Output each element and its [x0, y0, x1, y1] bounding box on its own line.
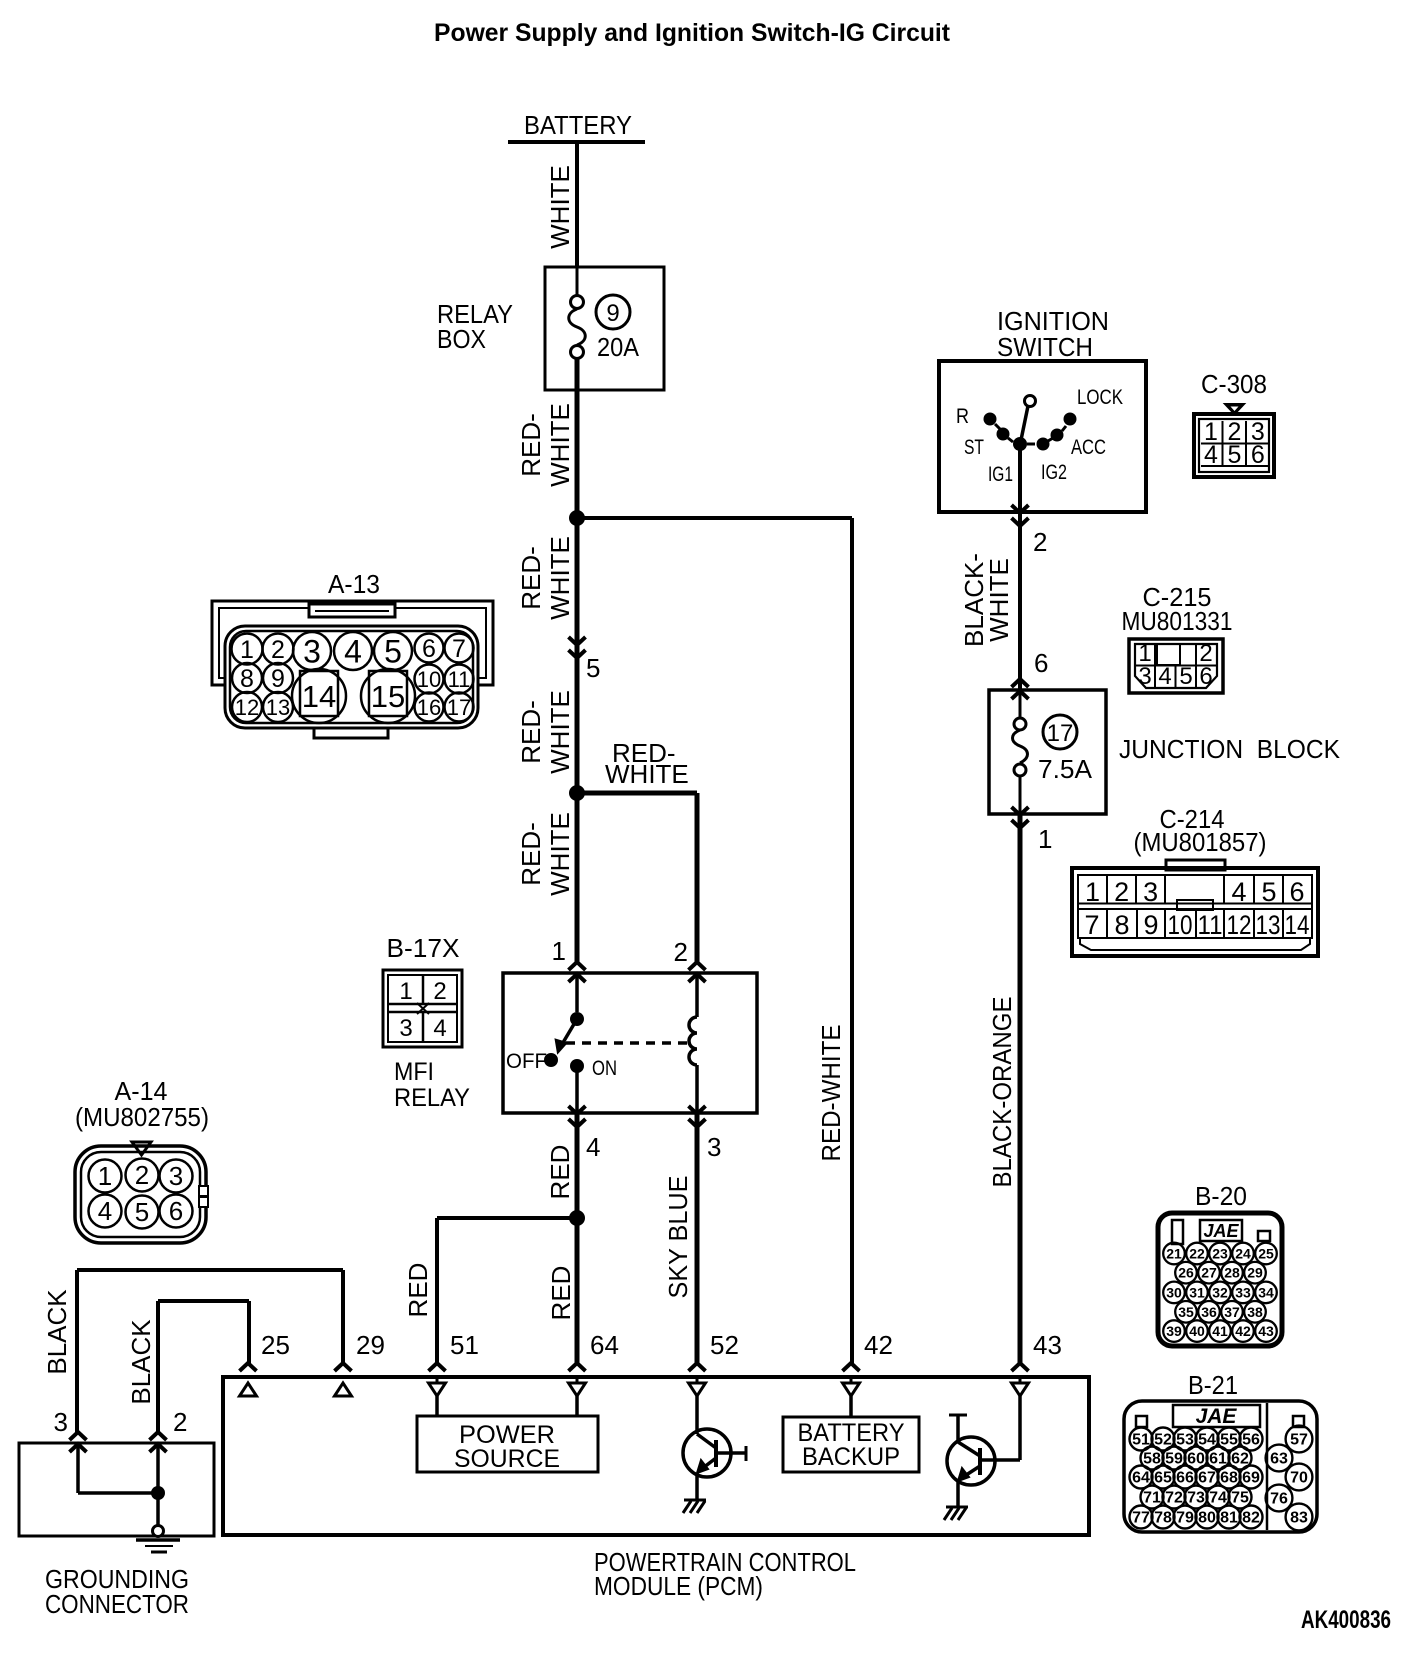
svg-text:41: 41 — [1212, 1323, 1228, 1339]
svg-text:AK400836: AK400836 — [1301, 1606, 1391, 1634]
svg-text:2: 2 — [135, 1160, 149, 1190]
svg-text:2: 2 — [173, 1407, 187, 1437]
svg-text:9: 9 — [271, 665, 285, 693]
svg-text:6: 6 — [1034, 648, 1048, 678]
svg-text:71: 71 — [1143, 1490, 1161, 1507]
svg-text:51: 51 — [450, 1330, 479, 1360]
svg-text:28: 28 — [1224, 1265, 1240, 1281]
svg-text:34: 34 — [1258, 1284, 1274, 1300]
svg-text:ACC: ACC — [1071, 436, 1106, 459]
svg-text:RELAY: RELAY — [394, 1084, 470, 1112]
svg-text:6: 6 — [169, 1196, 183, 1226]
svg-text:79: 79 — [1176, 1510, 1194, 1527]
svg-text:81: 81 — [1220, 1510, 1238, 1527]
svg-text:6: 6 — [1289, 877, 1304, 907]
svg-text:35: 35 — [1178, 1304, 1194, 1320]
svg-text:IG2: IG2 — [1041, 461, 1067, 484]
svg-text:6: 6 — [1199, 663, 1212, 690]
svg-text:80: 80 — [1198, 1510, 1216, 1527]
svg-text:59: 59 — [1165, 1451, 1183, 1468]
svg-text:2: 2 — [433, 978, 446, 1005]
svg-text:64: 64 — [590, 1330, 619, 1360]
svg-text:24: 24 — [1235, 1246, 1251, 1262]
svg-text:2: 2 — [1114, 877, 1129, 907]
svg-text:B-21: B-21 — [1188, 1370, 1238, 1400]
svg-text:3: 3 — [1143, 877, 1158, 907]
svg-text:B-17X: B-17X — [387, 933, 460, 963]
svg-text:68: 68 — [1220, 1470, 1238, 1487]
svg-text:RED-: RED- — [516, 413, 546, 477]
svg-text:MFI: MFI — [394, 1058, 434, 1086]
svg-text:64: 64 — [1132, 1470, 1150, 1487]
svg-text:MU801331: MU801331 — [1122, 606, 1233, 636]
svg-text:11: 11 — [448, 667, 471, 692]
svg-text:33: 33 — [1235, 1284, 1251, 1300]
svg-text:R: R — [956, 405, 969, 428]
svg-text:76: 76 — [1270, 1491, 1288, 1508]
svg-text:26: 26 — [1178, 1265, 1194, 1281]
svg-text:4: 4 — [433, 1015, 446, 1042]
svg-text:WHITE: WHITE — [605, 759, 689, 789]
svg-text:25: 25 — [261, 1330, 290, 1360]
svg-text:58: 58 — [1143, 1451, 1161, 1468]
svg-text:RED: RED — [546, 1266, 576, 1321]
svg-text:8: 8 — [240, 665, 254, 693]
svg-text:1: 1 — [399, 978, 412, 1005]
svg-text:62: 62 — [1231, 1451, 1249, 1468]
svg-text:4: 4 — [1158, 663, 1171, 690]
svg-text:14: 14 — [1285, 910, 1310, 940]
svg-text:5: 5 — [135, 1197, 149, 1227]
svg-text:25: 25 — [1258, 1246, 1274, 1262]
svg-text:60: 60 — [1187, 1451, 1205, 1468]
svg-text:4: 4 — [98, 1196, 112, 1226]
svg-text:SKY BLUE: SKY BLUE — [663, 1176, 693, 1299]
svg-text:5: 5 — [1261, 877, 1276, 907]
svg-text:12: 12 — [235, 695, 259, 720]
svg-text:9: 9 — [1143, 910, 1158, 940]
svg-text:61: 61 — [1209, 1451, 1227, 1468]
svg-text:37: 37 — [1224, 1304, 1240, 1320]
svg-text:15: 15 — [371, 679, 405, 714]
svg-text:RED-: RED- — [516, 700, 546, 764]
svg-text:10: 10 — [1168, 910, 1193, 940]
svg-text:53: 53 — [1176, 1432, 1194, 1449]
svg-text:RED: RED — [403, 1263, 433, 1318]
svg-text:32: 32 — [1212, 1284, 1228, 1300]
svg-text:3: 3 — [169, 1161, 183, 1191]
svg-text:RED-: RED- — [516, 822, 546, 886]
svg-text:52: 52 — [710, 1330, 739, 1360]
svg-text:5: 5 — [1179, 663, 1192, 690]
svg-text:RED-WHITE: RED-WHITE — [816, 1025, 846, 1162]
svg-text:16: 16 — [417, 695, 441, 720]
svg-text:65: 65 — [1154, 1470, 1172, 1487]
svg-text:12: 12 — [1227, 910, 1252, 940]
svg-text:36: 36 — [1201, 1304, 1217, 1320]
svg-text:4: 4 — [344, 633, 362, 669]
svg-text:IG1: IG1 — [988, 463, 1013, 486]
svg-text:C-308: C-308 — [1201, 369, 1267, 399]
svg-text:3: 3 — [303, 633, 321, 669]
svg-text:7: 7 — [1084, 910, 1099, 940]
svg-text:2: 2 — [674, 937, 688, 967]
svg-text:69: 69 — [1242, 1470, 1260, 1487]
svg-text:WHITE: WHITE — [545, 690, 575, 774]
svg-text:(MU802755): (MU802755) — [75, 1102, 209, 1132]
svg-text:7.5A: 7.5A — [1038, 754, 1093, 784]
svg-text:1: 1 — [240, 636, 254, 664]
svg-text:BLACK: BLACK — [42, 1289, 72, 1375]
svg-text:CONNECTOR: CONNECTOR — [45, 1589, 189, 1619]
svg-text:SOURCE: SOURCE — [454, 1445, 560, 1473]
svg-text:73: 73 — [1187, 1490, 1205, 1507]
svg-text:20A: 20A — [597, 332, 640, 362]
svg-text:BATTERY: BATTERY — [524, 110, 632, 140]
svg-text:5: 5 — [384, 633, 402, 669]
svg-text:SWITCH: SWITCH — [997, 332, 1093, 362]
svg-text:39: 39 — [1166, 1323, 1182, 1339]
svg-text:78: 78 — [1154, 1510, 1172, 1527]
svg-text:B-20: B-20 — [1195, 1181, 1247, 1211]
svg-text:74: 74 — [1209, 1490, 1227, 1507]
svg-text:42: 42 — [1235, 1323, 1251, 1339]
svg-text:22: 22 — [1189, 1246, 1205, 1262]
svg-text:A-13: A-13 — [328, 569, 380, 599]
svg-text:ST: ST — [964, 436, 984, 459]
svg-text:BLACK: BLACK — [126, 1319, 156, 1405]
svg-text:WHITE: WHITE — [545, 812, 575, 896]
svg-text:BOX: BOX — [437, 324, 486, 354]
svg-text:40: 40 — [1189, 1323, 1205, 1339]
svg-text:43: 43 — [1033, 1330, 1062, 1360]
svg-text:RED-: RED- — [516, 546, 546, 610]
svg-text:30: 30 — [1166, 1284, 1182, 1300]
svg-text:67: 67 — [1198, 1470, 1216, 1487]
svg-text:5: 5 — [1227, 441, 1241, 469]
svg-text:21: 21 — [1166, 1246, 1182, 1262]
svg-text:2: 2 — [1033, 527, 1047, 557]
svg-text:42: 42 — [864, 1330, 893, 1360]
svg-text:4: 4 — [1231, 877, 1246, 907]
svg-text:70: 70 — [1290, 1470, 1308, 1487]
svg-text:JAE: JAE — [1203, 1221, 1239, 1241]
svg-text:77: 77 — [1132, 1510, 1150, 1527]
svg-text:23: 23 — [1212, 1246, 1228, 1262]
svg-text:54: 54 — [1198, 1432, 1216, 1449]
svg-text:1: 1 — [1085, 877, 1100, 907]
svg-text:31: 31 — [1189, 1284, 1205, 1300]
svg-text:29: 29 — [356, 1330, 385, 1360]
svg-text:57: 57 — [1290, 1432, 1308, 1449]
svg-text:WHITE: WHITE — [984, 558, 1014, 642]
svg-text:75: 75 — [1231, 1490, 1249, 1507]
svg-text:17: 17 — [1047, 720, 1074, 747]
svg-text:WHITE: WHITE — [545, 536, 575, 620]
svg-text:ON: ON — [592, 1057, 617, 1080]
svg-text:13: 13 — [1256, 910, 1281, 940]
svg-text:7: 7 — [452, 635, 466, 663]
svg-text:3: 3 — [707, 1132, 721, 1162]
svg-text:1: 1 — [1038, 824, 1052, 854]
svg-text:6: 6 — [1251, 441, 1265, 469]
svg-text:72: 72 — [1165, 1490, 1183, 1507]
svg-text:5: 5 — [586, 653, 600, 683]
svg-text:9: 9 — [606, 300, 619, 327]
svg-text:83: 83 — [1290, 1510, 1308, 1527]
svg-text:66: 66 — [1176, 1470, 1194, 1487]
svg-text:38: 38 — [1247, 1304, 1263, 1320]
svg-text:11: 11 — [1198, 910, 1223, 940]
svg-text:51: 51 — [1132, 1432, 1150, 1449]
svg-text:1: 1 — [552, 936, 566, 966]
svg-text:3: 3 — [1138, 663, 1151, 690]
svg-text:(MU801857): (MU801857) — [1134, 827, 1267, 857]
svg-text:27: 27 — [1201, 1265, 1217, 1281]
svg-text:LOCK: LOCK — [1077, 386, 1123, 409]
svg-text:1: 1 — [98, 1161, 112, 1191]
svg-text:3: 3 — [399, 1015, 412, 1042]
svg-text:WHITE: WHITE — [545, 165, 575, 249]
svg-text:JAE: JAE — [1196, 1405, 1238, 1428]
svg-text:OFF: OFF — [506, 1050, 547, 1073]
svg-text:63: 63 — [1270, 1451, 1288, 1468]
svg-text:BLACK-ORANGE: BLACK-ORANGE — [987, 997, 1017, 1188]
svg-text:4: 4 — [586, 1132, 600, 1162]
svg-text:Power Supply and Ignition Swit: Power Supply and Ignition Switch-IG Circ… — [434, 19, 951, 47]
svg-text:WHITE: WHITE — [545, 403, 575, 487]
svg-text:56: 56 — [1242, 1432, 1260, 1449]
svg-text:2: 2 — [271, 636, 285, 664]
svg-text:13: 13 — [266, 695, 290, 720]
svg-text:3: 3 — [54, 1407, 68, 1437]
svg-text:8: 8 — [1114, 910, 1129, 940]
svg-text:4: 4 — [1204, 441, 1218, 469]
svg-text:43: 43 — [1258, 1323, 1274, 1339]
svg-text:29: 29 — [1247, 1265, 1263, 1281]
svg-text:RED: RED — [545, 1145, 575, 1200]
svg-text:52: 52 — [1154, 1432, 1172, 1449]
svg-text:55: 55 — [1220, 1432, 1238, 1449]
svg-text:10: 10 — [417, 667, 441, 692]
svg-text:JUNCTION BLOCK: JUNCTION BLOCK — [1119, 734, 1341, 764]
svg-text:BACKUP: BACKUP — [802, 1443, 900, 1471]
svg-text:MODULE (PCM): MODULE (PCM) — [594, 1571, 763, 1601]
svg-text:14: 14 — [302, 679, 336, 714]
svg-text:82: 82 — [1242, 1510, 1260, 1527]
svg-text:6: 6 — [422, 635, 436, 663]
svg-text:17: 17 — [447, 695, 471, 720]
